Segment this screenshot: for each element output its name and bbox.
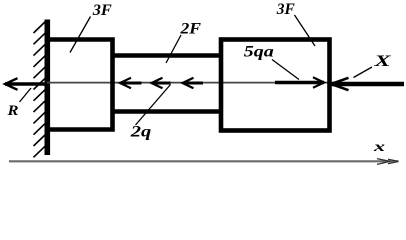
leader X (354, 67, 373, 78)
svg-text:x: x (372, 139, 385, 154)
bar segment 2 (middle bar) (113, 56, 222, 112)
svg-text:3F: 3F (276, 1, 295, 18)
svg-text:5qa: 5qa (244, 44, 274, 61)
force 5qa arrow (275, 77, 324, 87)
distributed load arrow 2 (152, 78, 171, 88)
svg-text:3F: 3F (92, 2, 113, 19)
force X arrow (331, 78, 404, 90)
wall line (44, 20, 50, 156)
centerline (bar axis) (47, 82, 329, 84)
svg-text:2F: 2F (179, 21, 201, 38)
svg-text:X: X (373, 53, 391, 70)
leader 2q (136, 85, 171, 126)
force R arrow (5, 78, 47, 90)
leader R (20, 88, 32, 102)
leader 3F right (295, 15, 316, 46)
distributed load arrow 1 (120, 78, 142, 88)
bar segment 3 (right block) (221, 40, 330, 131)
x axis arrowhead (377, 159, 399, 165)
x axis line (9, 160, 399, 162)
bar segment 1 (left block) (47, 40, 113, 130)
leader 5qa (272, 60, 299, 80)
svg-text:2q: 2q (130, 124, 152, 141)
svg-text:R: R (6, 103, 18, 119)
distributed load arrow 3 (183, 78, 204, 88)
wall hatching (34, 20, 48, 157)
leader 2F (166, 35, 181, 63)
leader 3F left (70, 17, 91, 53)
